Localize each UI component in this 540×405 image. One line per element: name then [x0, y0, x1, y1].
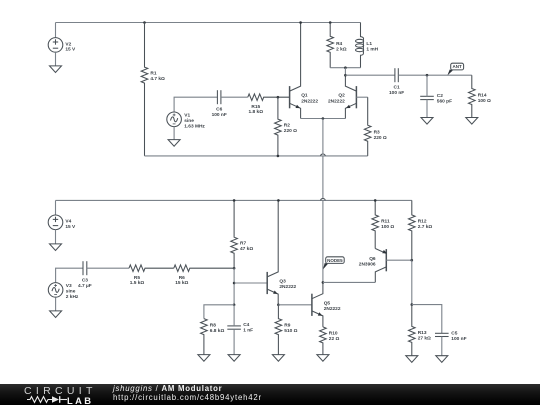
svg-text:C6: C6 [216, 107, 222, 113]
wire C4 top lead [233, 305, 235, 326]
resistor R1 4.7 kΩ [141, 23, 165, 156]
svg-text:2 kHz: 2 kHz [66, 294, 79, 300]
node R2-rail junction [277, 155, 280, 158]
ground below C4 [228, 355, 240, 362]
svg-text:C2: C2 [437, 93, 443, 99]
svg-text:220 Ω: 220 Ω [374, 135, 387, 141]
svg-text:47 kΩ: 47 kΩ [240, 246, 253, 252]
wire V3 riser [56, 268, 83, 282]
svg-text:R14: R14 [478, 92, 487, 98]
svg-text:C1: C1 [394, 85, 400, 91]
svg-text:C3: C3 [82, 278, 88, 284]
ground below R14 [466, 118, 478, 125]
wire emitter rail [301, 118, 346, 120]
wire V3 to ground [55, 297, 57, 311]
svg-text:R7: R7 [240, 241, 246, 247]
resistor R3 220 Ω [364, 97, 387, 156]
wire C2 top lead [426, 75, 428, 96]
resistor R14 100 Ω [469, 75, 492, 117]
wire V4 to ground [55, 230, 57, 244]
svg-text:R1: R1 [150, 71, 156, 77]
svg-text:Q1: Q1 [301, 93, 308, 99]
svg-text:R12: R12 [418, 219, 427, 225]
resistor R15 1.8 kΩ [248, 94, 290, 115]
svg-text:R10: R10 [329, 331, 338, 337]
wire bias divider [233, 268, 235, 305]
wire R12 to R13 [411, 260, 413, 304]
svg-text:R15: R15 [251, 104, 260, 110]
wire lower supply rail [56, 199, 412, 201]
wire to C1 [345, 74, 395, 76]
svg-text:R2: R2 [284, 123, 290, 129]
wire R8 branch [204, 305, 234, 319]
svg-text:V1: V1 [184, 112, 190, 118]
svg-text:2 kΩ: 2 kΩ [336, 46, 347, 52]
svg-text:2N2222: 2N2222 [301, 98, 318, 104]
resistor R10 22 Ω [320, 327, 340, 355]
node Q1 collector-rail junction [299, 21, 302, 24]
node Q3 base junction [233, 282, 236, 285]
node R11-rail junction [374, 199, 377, 202]
svg-text:100 nF: 100 nF [389, 90, 404, 96]
wire Q2 base to R3 [356, 96, 367, 98]
resistor R6 15 kΩ [174, 265, 234, 286]
transistor Q2 2N2222 [328, 75, 356, 118]
wire Q3 base [234, 282, 267, 284]
svg-text:NODE5: NODE5 [327, 258, 343, 263]
capacitor C6 100 nF [212, 90, 227, 118]
svg-text:220 Ω: 220 Ω [284, 128, 297, 134]
transistor Q1 2N2222 [290, 23, 319, 119]
svg-text:1.63 MHz: 1.63 MHz [184, 123, 205, 129]
svg-text:R4: R4 [336, 41, 342, 47]
resistor R13 27 kΩ [409, 305, 432, 356]
footer banner [0, 384, 540, 405]
svg-text:ANT: ANT [452, 64, 461, 69]
wire C4 to ground [233, 329, 235, 354]
svg-text:sine: sine [184, 118, 194, 124]
resistor R8 6.8 kΩ [201, 319, 225, 355]
svg-text:510 Ω: 510 Ω [284, 328, 297, 334]
node Q3 emitter junction [277, 304, 280, 307]
svg-text:Q6: Q6 [369, 256, 376, 262]
svg-text:R11: R11 [381, 219, 390, 225]
node R8-C4 junction [233, 304, 236, 307]
inductor L1 1 mH [356, 23, 379, 68]
wire V4 to rail [55, 200, 57, 215]
voltage source V1 sine|1.63 MHz [167, 112, 206, 129]
svg-text:R9: R9 [284, 322, 290, 328]
node collector output junction [344, 74, 347, 77]
svg-text:2N2222: 2N2222 [324, 306, 341, 312]
svg-text:1.5 kΩ: 1.5 kΩ [130, 280, 145, 286]
ground below C5 [436, 356, 448, 363]
wire top supply rail [56, 22, 361, 24]
transistor Q6 2N3906 [359, 249, 387, 283]
svg-text:Q3: Q3 [279, 279, 286, 285]
svg-text:100 nF: 100 nF [212, 112, 227, 118]
resistor R12 2.7 kΩ [409, 200, 433, 260]
voltage source V2 15 V [48, 38, 76, 53]
node Q3 collector-rail junction [277, 199, 280, 202]
svg-text:1 mH: 1 mH [366, 47, 378, 53]
capacitor C1 100 nF [389, 68, 404, 96]
node tank bottom junction [344, 66, 347, 69]
svg-text:15 V: 15 V [65, 47, 76, 53]
svg-text:100 Ω: 100 Ω [478, 98, 491, 104]
wire tank bottom [330, 67, 360, 69]
svg-text:15 V: 15 V [65, 224, 76, 230]
svg-text:1.8 kΩ: 1.8 kΩ [249, 109, 264, 115]
svg-text:2N2222: 2N2222 [279, 284, 296, 290]
node flag ANT [447, 63, 463, 75]
wire C5 to ground [441, 337, 443, 356]
node emitter junction [322, 117, 325, 120]
wire Q3 emitter to Q5 base [278, 304, 312, 306]
svg-text:R8: R8 [210, 322, 216, 328]
wire C3 to R5 [87, 267, 129, 269]
resistor R2 220 Ω [275, 97, 298, 156]
wire emitters to lower stage [322, 119, 324, 283]
svg-text:2N3906: 2N3906 [359, 261, 376, 267]
wire V1 riser [174, 97, 217, 112]
node Q6 base junction [411, 259, 414, 262]
ground below V1 [168, 140, 180, 147]
svg-text:R13: R13 [418, 330, 427, 336]
wire V1 to ground [173, 127, 175, 140]
node R4-rail junction [329, 21, 332, 24]
node R6-R7 junction [233, 267, 236, 270]
node R7-rail junction [233, 199, 236, 202]
svg-text:2.7 kΩ: 2.7 kΩ [418, 224, 433, 230]
voltage source V4 15 V [48, 215, 76, 230]
svg-text:22 Ω: 22 Ω [329, 336, 340, 342]
svg-text:R5: R5 [134, 275, 140, 281]
ground below V3 [50, 311, 62, 318]
node Q1 base junction [277, 96, 280, 99]
svg-text:C5: C5 [451, 331, 457, 337]
wire V2 to ground [55, 52, 57, 66]
wire V2 to rail [55, 23, 57, 38]
svg-text:560 pF: 560 pF [437, 98, 452, 104]
wire C2 to ground [426, 100, 428, 118]
wire C6 to R15 [221, 96, 248, 98]
CircuitLab logo [24, 385, 97, 397]
ground below V2 [50, 66, 62, 73]
svg-text:100 nF: 100 nF [451, 336, 466, 342]
resistor R7 47 kΩ [231, 200, 254, 268]
ground below C2 [421, 118, 433, 125]
svg-text:4.7 kΩ: 4.7 kΩ [150, 76, 165, 82]
transistor Q5 2N2222 [312, 282, 341, 327]
node R1-rail junction [143, 21, 146, 24]
resistor R11 100 Ω [372, 200, 395, 248]
svg-text:L1: L1 [366, 41, 372, 47]
svg-text:4.7 µF: 4.7 µF [78, 283, 92, 289]
resistor R4 2 kΩ [327, 23, 347, 68]
svg-text:C4: C4 [243, 322, 249, 328]
capacitor C2 560 pF [420, 93, 452, 105]
capacitor C5 100 nF [435, 331, 467, 342]
resistor R5 1.5 kΩ [129, 265, 174, 286]
svg-text:27 kΩ: 27 kΩ [418, 336, 431, 342]
svg-text:6.8 kΩ: 6.8 kΩ [210, 328, 225, 334]
capacitor C4 1 nF [227, 322, 253, 334]
svg-text:15 kΩ: 15 kΩ [175, 280, 188, 286]
wire tank to collector [344, 68, 346, 76]
svg-text:Q5: Q5 [324, 300, 331, 306]
transistor Q3 2N2222 [267, 200, 296, 304]
svg-text:2N2222: 2N2222 [328, 98, 345, 104]
wire Q5 collector to Q6 collector [323, 281, 375, 283]
wire middle rail [145, 154, 368, 156]
wire C1 to output [398, 74, 472, 76]
node flag NODE5 [323, 257, 344, 270]
ground below R13 [406, 356, 418, 363]
wire C5 branch [412, 305, 442, 334]
node Q5 collector junction [322, 281, 325, 284]
ground below V4 [50, 244, 62, 251]
resistor R9 510 Ω [275, 305, 298, 355]
ground below R8 [198, 355, 210, 362]
svg-text:V2: V2 [65, 41, 71, 47]
voltage source V3 sine|2 kHz [48, 283, 79, 300]
node C2 junction [426, 74, 429, 77]
svg-text:1 nF: 1 nF [243, 328, 253, 334]
svg-text:V4: V4 [65, 219, 71, 225]
wire Q6 base [386, 259, 412, 261]
svg-text:Q2: Q2 [338, 93, 345, 99]
svg-text:100 Ω: 100 Ω [381, 224, 394, 230]
ground below R10 [317, 355, 329, 362]
svg-text:sine: sine [66, 289, 76, 295]
svg-text:R6: R6 [179, 275, 185, 281]
svg-text:R3: R3 [374, 129, 380, 135]
capacitor C3 4.7 µF [78, 261, 92, 289]
node R13-C5 junction [411, 303, 414, 306]
svg-text:V3: V3 [66, 283, 72, 289]
ground below R9 [272, 355, 284, 362]
